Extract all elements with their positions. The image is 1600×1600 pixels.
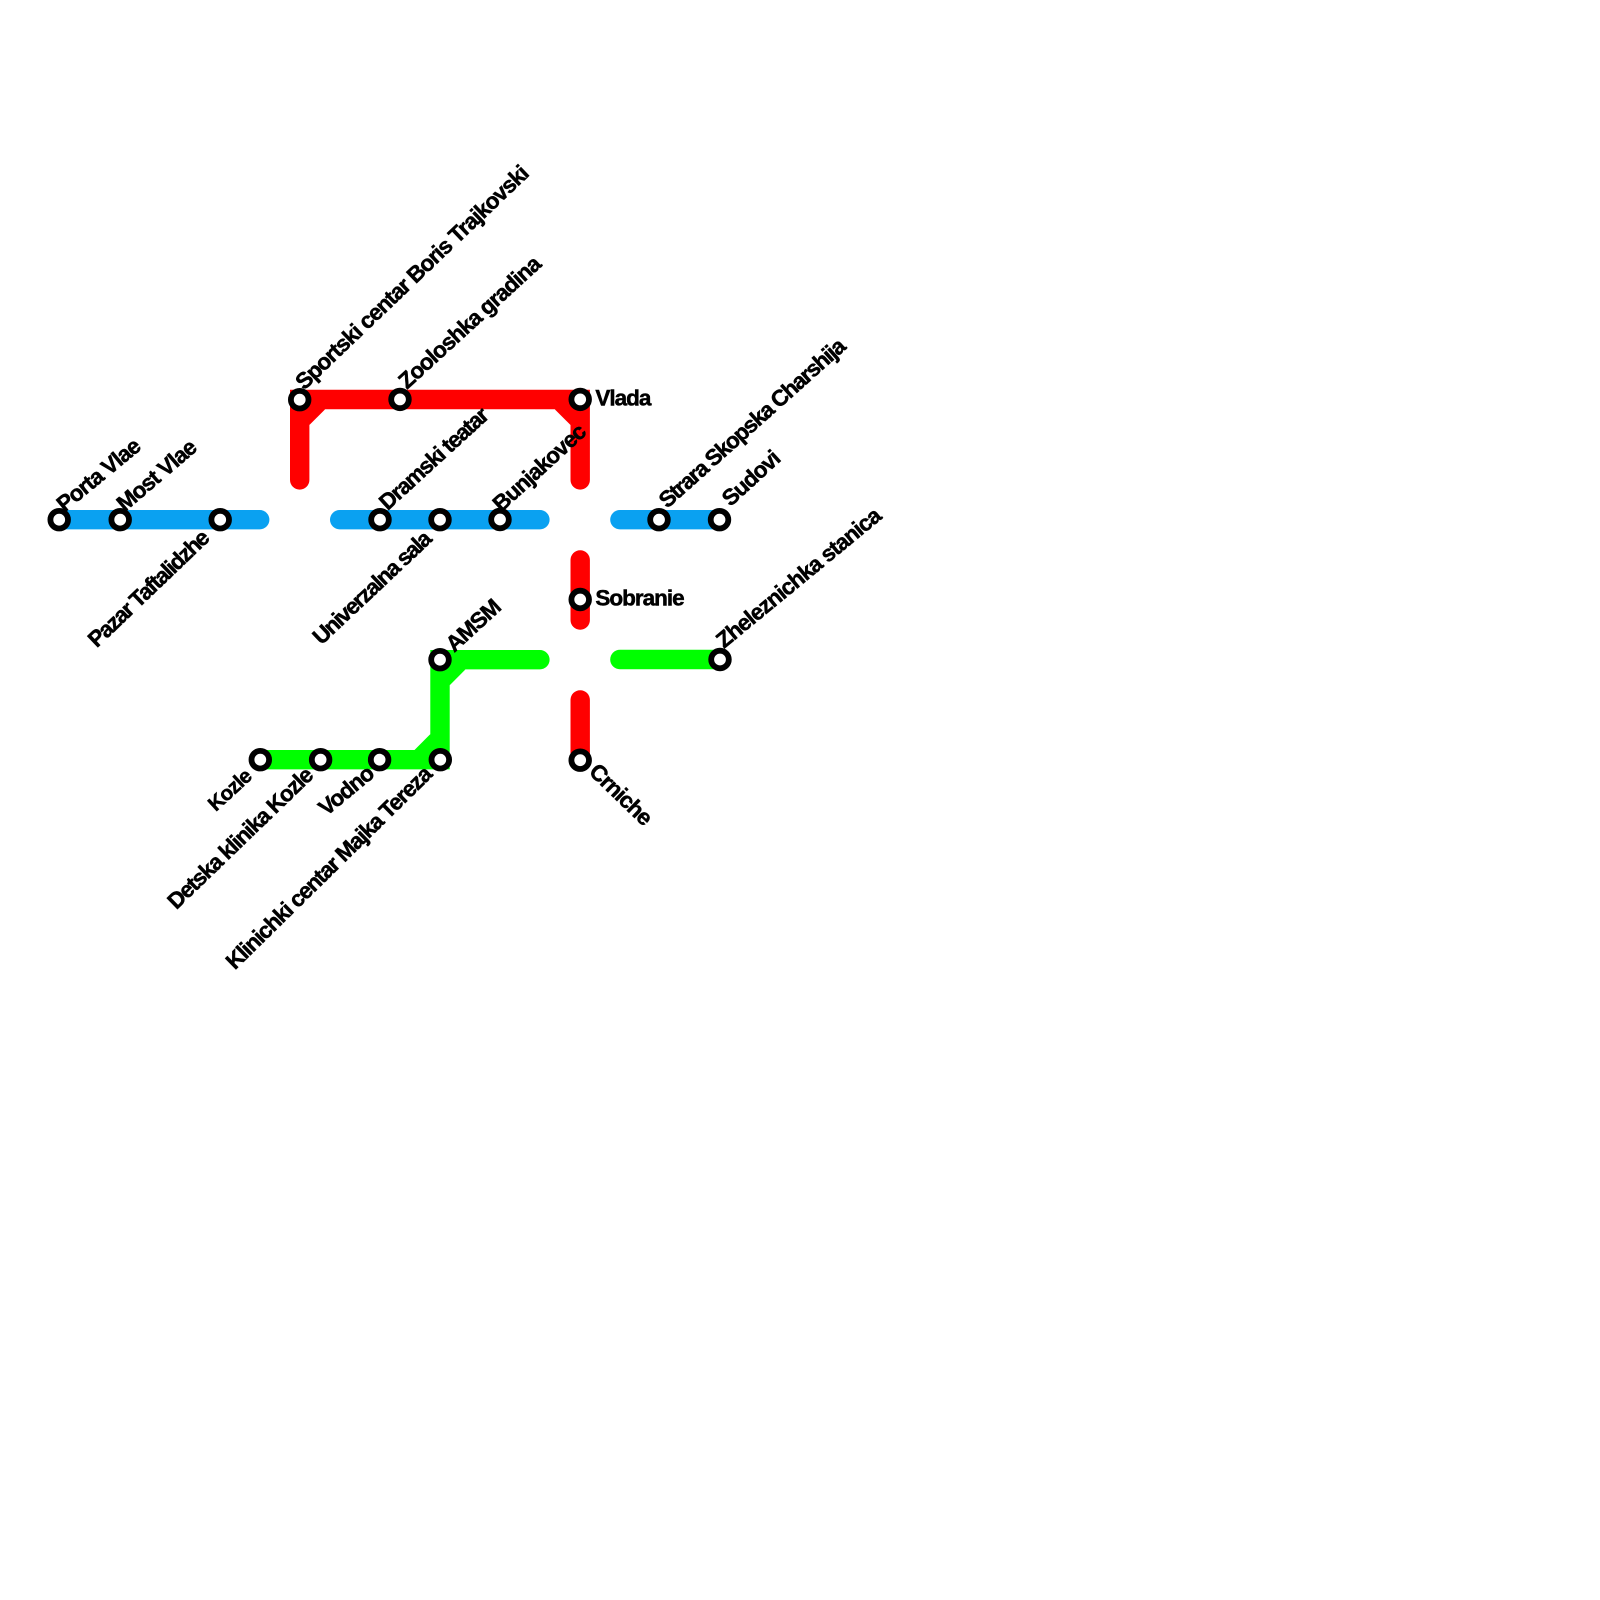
green line main path Kozle to AMSM and east (cut before red vertical) bbox=[260, 660, 540, 760]
station Most Vlae bbox=[111, 511, 129, 529]
station Sobranie bbox=[571, 591, 589, 609]
station Bunjakovec bbox=[491, 511, 509, 529]
blue line segment Strara Skopska Charshija to Sudovi bbox=[620, 510, 720, 529]
blue line segment middle (cut around red branch and red vertical) bbox=[340, 510, 540, 529]
blue line segment Porta Vlae to Pazar Taftalidzhe (cut before red branch) bbox=[59, 510, 260, 529]
station Univerzalna sala position bbox=[371, 511, 389, 529]
green line segment to Zheleznichka stanica bbox=[620, 650, 720, 669]
red line main path with corners at Sportski centar and Vlada bbox=[300, 400, 581, 480]
svg-text:Sobranie: Sobranie bbox=[595, 585, 684, 610]
station Zheleznichka stanica bbox=[711, 651, 729, 669]
station Strara Skopska Charshija bbox=[650, 511, 668, 529]
station Pazar Taftalidzhe bbox=[211, 511, 229, 529]
station Detska klinika Kozle bbox=[312, 751, 330, 769]
red line segment Bunjakovec-Sobranie (between blue and green crossings) bbox=[571, 560, 590, 620]
station Zooloshka gradina bbox=[391, 391, 409, 409]
green corner bevel at Klinichki centar Majka Tereza bbox=[415, 734, 436, 755]
station Sudovi bbox=[711, 511, 729, 529]
station Klinichki centar Majka Tereza bbox=[432, 751, 450, 769]
green corner bevel at AMSM bbox=[445, 665, 466, 685]
red corner bevel at Sportski centar bbox=[305, 405, 325, 425]
red line segment Sobranie-Crniche (below green crossing) bbox=[571, 700, 590, 760]
svg-text:Vlada: Vlada bbox=[595, 385, 652, 410]
station Dramski teatar position bbox=[431, 511, 449, 529]
station Crniche bbox=[571, 751, 589, 769]
station Vodno bbox=[371, 751, 389, 769]
station Kozle bbox=[251, 751, 269, 769]
station AMSM bbox=[431, 651, 449, 669]
station Sportski centar Boris Trajkovski bbox=[291, 391, 309, 409]
red corner bevel at Vlada bbox=[555, 405, 575, 425]
station Vlada bbox=[571, 391, 589, 409]
station Porta Vlae bbox=[50, 511, 68, 529]
